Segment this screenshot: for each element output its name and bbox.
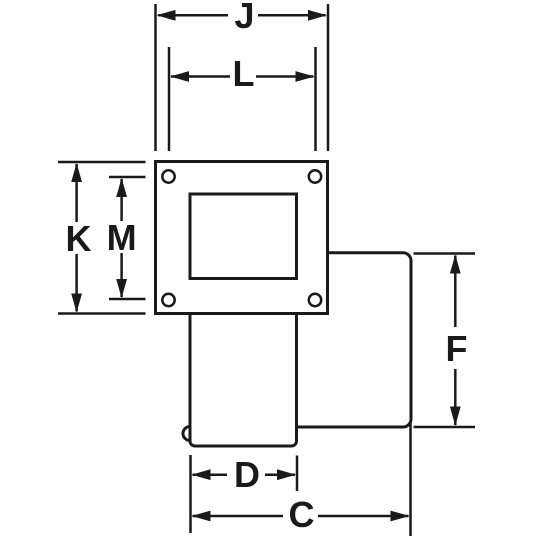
dimension J line right segment [258,14,326,17]
lower blower housing [190,310,297,446]
dimension J line left segment [158,14,228,17]
arrowhead D right [277,469,296,480]
arrowhead K bottom [71,294,82,313]
extension line K bottom [58,312,146,315]
dimension L line right segment [256,75,314,78]
svg-text:K: K [66,218,92,259]
motor housing (rounded rectangle, right side) [290,253,411,427]
arrowhead C left [192,511,211,522]
arrowhead M top [116,178,127,197]
dimension D line left segment [193,473,228,476]
svg-text:L: L [233,53,255,94]
arrowhead F top [450,255,461,274]
dimension M line bottom segment [120,253,123,297]
extension line C right [409,422,412,536]
arrowhead L left [170,71,189,82]
mounting flange plate [156,162,328,314]
flange inner opening [190,194,297,279]
arrowhead C right [391,511,410,522]
bolt hole top-left [162,170,174,182]
extension line D and C left [189,455,192,533]
svg-text:M: M [107,217,137,258]
dimension K line bottom segment [75,254,78,312]
extension line D right [296,456,299,492]
extension line J right [327,4,330,151]
extension line L left [168,47,171,151]
extension line M bottom [109,298,146,301]
drain bump on lower housing left side [183,427,190,441]
extension line J left [154,4,157,151]
dimension M line top segment [120,179,123,221]
svg-text:C: C [289,494,315,535]
dimension D line right segment [265,473,295,476]
dimension C line left segment [193,515,284,518]
dimension L line left segment [171,75,230,78]
dimension F line bottom segment [454,369,457,425]
bolt hole bottom-right [309,294,321,306]
dimension K line top segment [75,164,78,222]
extension line F bottom [414,426,476,429]
dimension F line top segment [454,256,457,328]
bolt hole top-right [309,170,321,182]
extension line K top [58,161,146,164]
arrowhead F bottom [450,407,461,427]
extension line F top [414,252,476,255]
svg-text:D: D [234,454,260,495]
arrowhead L right [296,71,315,82]
extension line M top [109,176,146,179]
arrowhead D left [192,469,211,480]
arrowhead J right [308,10,327,21]
svg-text:F: F [446,328,468,369]
bolt hole bottom-left [162,294,174,306]
dimension C line right segment [318,515,409,518]
arrowhead M bottom [116,279,127,298]
arrowhead J left [157,10,176,21]
svg-text:J: J [234,0,254,36]
arrowhead K top [71,163,82,182]
extension line L right [314,47,317,151]
